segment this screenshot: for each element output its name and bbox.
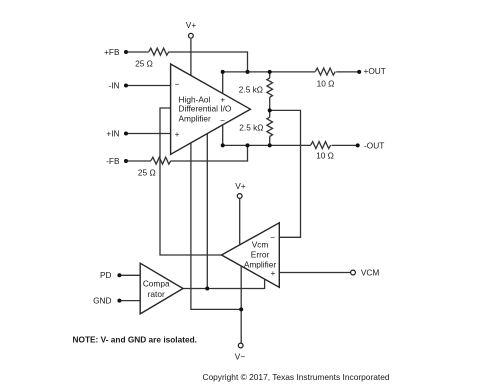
svg-text:Amplifier: Amplifier bbox=[244, 260, 277, 270]
svg-text:10 Ω: 10 Ω bbox=[317, 78, 335, 88]
svg-text:25 Ω: 25 Ω bbox=[135, 58, 153, 68]
svg-text:V−: V− bbox=[235, 351, 246, 361]
svg-text:−: − bbox=[220, 115, 225, 125]
svg-text:+OUT: +OUT bbox=[364, 66, 386, 76]
svg-text:2.5 kΩ: 2.5 kΩ bbox=[239, 84, 263, 94]
svg-text:VCM: VCM bbox=[361, 268, 380, 278]
svg-text:+: + bbox=[220, 94, 225, 104]
svg-text:Copyright © 2017, Texas Instru: Copyright © 2017, Texas Instruments Inco… bbox=[202, 372, 389, 382]
svg-text:GND: GND bbox=[93, 296, 111, 306]
svg-text:-IN: -IN bbox=[108, 80, 119, 90]
svg-text:V+: V+ bbox=[235, 181, 246, 191]
svg-text:NOTE: V- and GND are isolated.: NOTE: V- and GND are isolated. bbox=[73, 334, 197, 344]
svg-text:Error: Error bbox=[251, 250, 270, 260]
svg-text:+: + bbox=[175, 129, 180, 139]
svg-text:PD: PD bbox=[100, 270, 112, 280]
svg-text:Amplifier: Amplifier bbox=[179, 114, 212, 124]
svg-text:+IN: +IN bbox=[106, 128, 119, 138]
svg-text:rator: rator bbox=[148, 289, 165, 299]
svg-text:Differential I/O: Differential I/O bbox=[179, 103, 232, 113]
svg-text:-OUT: -OUT bbox=[364, 141, 384, 151]
svg-text:10 Ω: 10 Ω bbox=[316, 150, 334, 160]
svg-text:−: − bbox=[175, 79, 180, 89]
svg-text:V+: V+ bbox=[186, 20, 197, 30]
svg-text:2.5 kΩ: 2.5 kΩ bbox=[239, 122, 263, 132]
svg-text:25 Ω: 25 Ω bbox=[138, 168, 156, 178]
svg-text:−: − bbox=[270, 232, 275, 242]
svg-text:Compa: Compa bbox=[143, 279, 170, 289]
svg-text:-FB: -FB bbox=[106, 156, 120, 166]
svg-text:+FB: +FB bbox=[104, 47, 120, 57]
svg-text:Vcm: Vcm bbox=[252, 239, 269, 249]
